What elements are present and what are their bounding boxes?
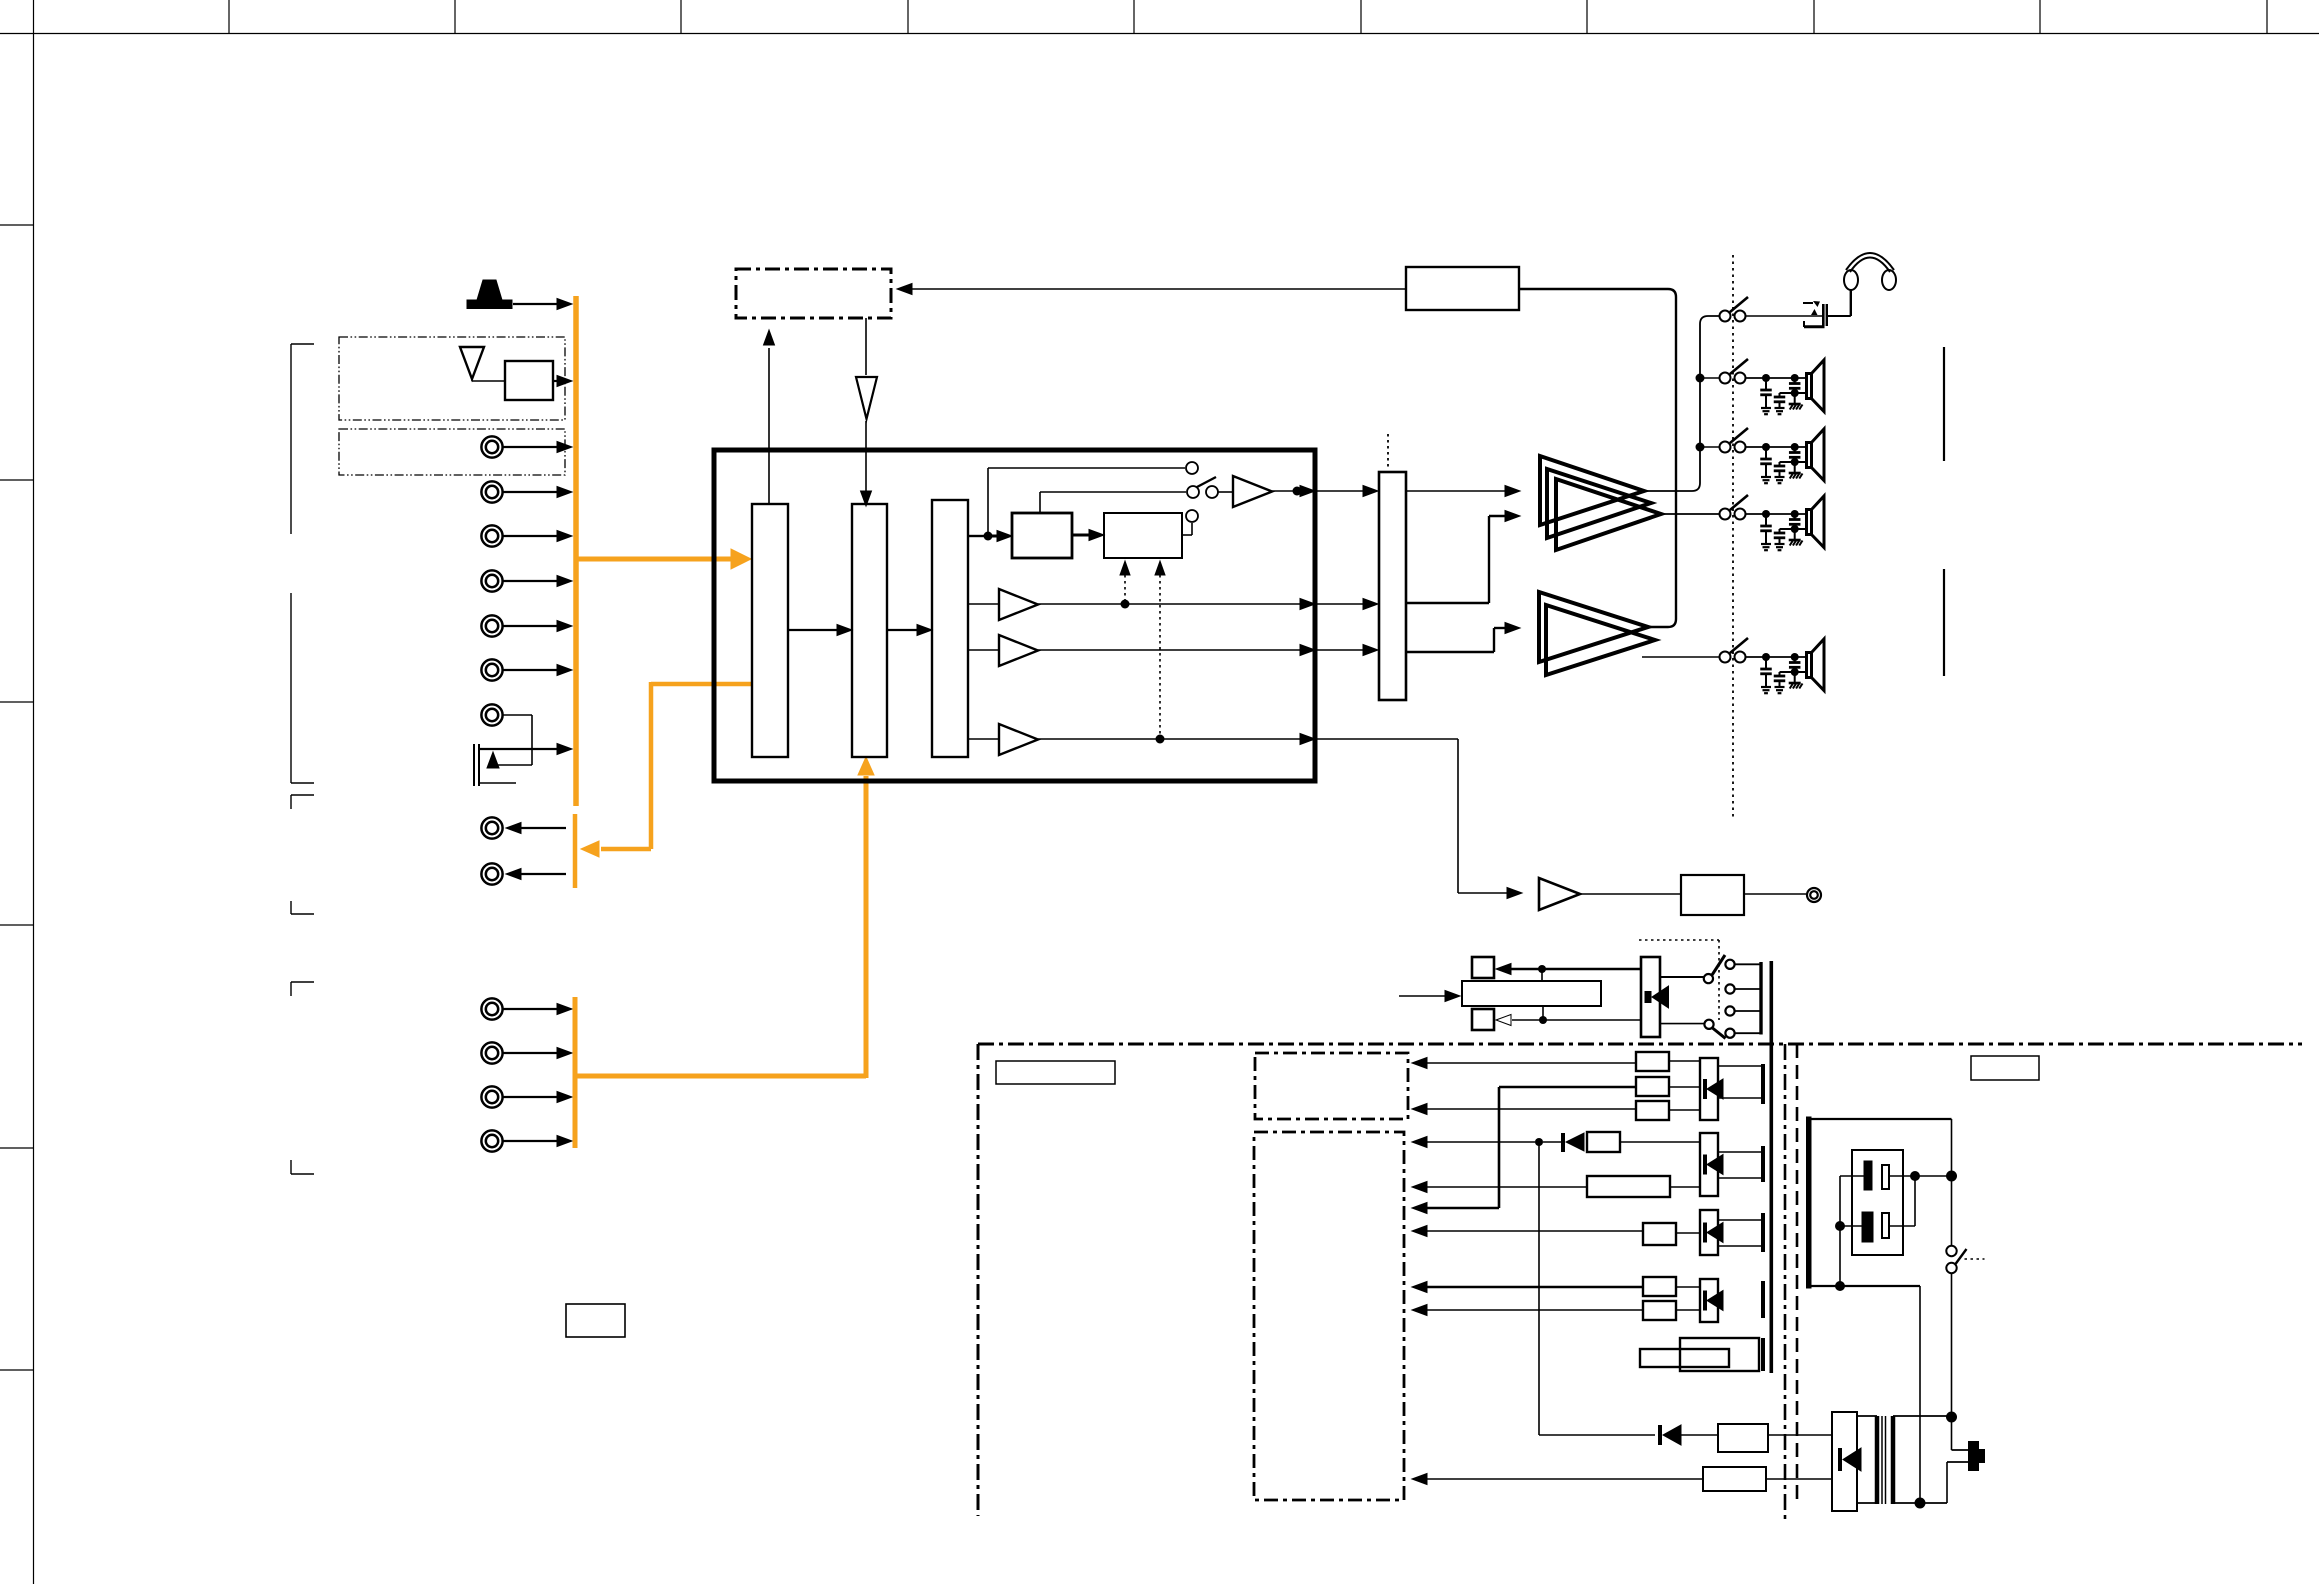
fuse block F2 <box>1703 1467 1766 1491</box>
transformer secondary <box>1857 1415 1877 1417</box>
REG4 output bracket <box>1761 1281 1765 1318</box>
wire relay to voltage selector <box>1660 976 1704 978</box>
speaker B left chassis ground <box>1789 539 1801 542</box>
rail block A2 <box>1636 1077 1669 1096</box>
wire to AC plug lower prong <box>1946 1462 1948 1503</box>
dash-dot separator 1 <box>1784 1044 1787 1520</box>
wire tone block to lower contact <box>1182 534 1192 536</box>
speaker surround <box>1807 653 1812 678</box>
wire switch to speaker A left <box>1745 377 1807 379</box>
speaker A right ground 1 <box>1761 476 1771 478</box>
headphone jack <box>1803 302 1813 304</box>
speaker surround capacitor C2 <box>1774 675 1786 678</box>
wire input jack J5 to bus <box>503 625 558 627</box>
input jack J4 <box>481 570 502 591</box>
junction node DAC output <box>968 535 984 537</box>
wire AC line row <box>1412 1474 1427 1485</box>
subwoofer buffer amp <box>1539 878 1580 910</box>
wire jack to headphones <box>1828 315 1851 317</box>
wire to rectifier diode <box>1539 1434 1655 1436</box>
voltage tap contacts <box>1725 960 1734 969</box>
speaker A right chassis ground <box>1789 472 1801 475</box>
wire DSP out 1 to muting <box>1315 490 1364 492</box>
regulator REG1 <box>1700 1058 1718 1120</box>
wire relay to indicator 1 <box>1510 968 1641 971</box>
volume attenuator triangle <box>856 377 877 419</box>
wire DSP to DAC <box>887 629 918 631</box>
input jack J7 (phono) <box>481 704 502 725</box>
multi-ch input jack J13 <box>481 1130 502 1151</box>
wire jack J12 to bus <box>503 1096 558 1098</box>
power section dash-dot left edge <box>977 1044 980 1516</box>
border frame top ticks <box>228 0 230 34</box>
wire jack J7 down <box>503 714 532 716</box>
wire input jack J3 to bus <box>503 535 558 537</box>
speaker A right <box>1807 443 1812 468</box>
wire bass block top to switch contact <box>1039 492 1041 513</box>
buffer amp U1c <box>968 649 999 651</box>
speaker A left ground 2 <box>1775 407 1785 409</box>
tone control block <box>1104 513 1182 558</box>
wire DSP out 2 to muting <box>1315 603 1364 605</box>
orange input bus <box>573 296 579 806</box>
speaker group bracket right 1 <box>1943 347 1945 461</box>
wire row A3 <box>1412 1104 1427 1115</box>
fuse block F1 <box>1681 1434 1718 1436</box>
rail block B3 <box>1643 1223 1676 1245</box>
dotted stub above muting block <box>1387 434 1389 470</box>
speaker surround ground 1 <box>1761 686 1771 688</box>
REG1 output bracket <box>1761 1064 1765 1104</box>
long resistor block <box>1587 1176 1670 1197</box>
headphone switch <box>1720 311 1731 322</box>
wire input jack J1 to bus <box>503 446 558 448</box>
input jack J5 <box>481 615 502 636</box>
speaker surround ground 2 <box>1775 686 1785 688</box>
input jack J3 <box>481 525 502 546</box>
wire relay to indicator 2 <box>1512 1019 1641 1021</box>
wire amp front R output to speaker row <box>1661 513 1719 515</box>
rail block D2 <box>1640 1349 1729 1367</box>
system control CPU dash-dot box <box>736 269 891 318</box>
dash-dot box aux input section <box>339 429 565 475</box>
speaker A left switch <box>1720 373 1731 384</box>
multi-ch input jack J10 <box>481 998 502 1019</box>
sheet label box <box>566 1304 625 1337</box>
wire buffer to lowpass block <box>1580 893 1681 895</box>
wire ground terminal to bus <box>479 748 558 750</box>
speaker surround capacitor C3 <box>1791 653 1799 661</box>
speaker A left ground 1 <box>1761 407 1771 409</box>
power section label box right <box>1971 1056 2039 1080</box>
speaker group bracket right 2 <box>1943 569 1945 676</box>
speaker A right capacitor C3 <box>1791 443 1799 451</box>
junction node secondary bottom <box>1915 1498 1926 1509</box>
power amp front (triple) <box>1540 456 1644 525</box>
speaker A left <box>1807 374 1812 399</box>
multi-ch input jack J12 <box>481 1086 502 1107</box>
group bracket mark 2 <box>290 593 292 783</box>
wire switch to speaker B left <box>1745 513 1807 515</box>
power relay RY1 <box>1641 957 1660 1037</box>
border frame left ticks <box>0 224 34 226</box>
bypass contact upper <box>1186 462 1198 474</box>
wire node to bypass contact <box>987 468 989 536</box>
sub CPU dash-dot box <box>1254 1132 1404 1500</box>
wire muting to power amp surround <box>1406 651 1494 653</box>
REG2 output bracket <box>1761 1146 1765 1182</box>
wire DSP sub out down <box>1315 738 1458 740</box>
wire selector to DSP <box>788 629 838 631</box>
rail block D1 <box>1680 1338 1759 1371</box>
regulator REG2 <box>1700 1133 1718 1196</box>
wire input jack J4 to bus <box>503 580 558 582</box>
power switch SW1 <box>1946 1246 1956 1256</box>
wire to bass block <box>988 535 1000 538</box>
speaker B left ground 1 <box>1761 543 1771 545</box>
power amp surround (double) <box>1539 592 1648 662</box>
group bracket mark 3 <box>291 794 314 796</box>
speaker B left capacitor C1 <box>1762 510 1770 518</box>
dotted control line 1 <box>1120 561 1130 575</box>
DSP main IC box <box>714 450 1315 781</box>
speaker A right capacitor C1 <box>1762 443 1770 451</box>
indicator block 1 <box>1472 957 1494 978</box>
outlet wiring <box>1889 1175 1952 1177</box>
power section dash-dot boundary <box>978 1043 2302 1046</box>
speaker A right ground 2 <box>1775 476 1785 478</box>
input jack J1 <box>481 436 502 457</box>
wire amp front L output trunk <box>1644 316 1719 491</box>
DAC block <box>932 500 968 757</box>
group bracket mark 5 <box>291 981 314 983</box>
wire outlet top <box>1811 1118 1952 1120</box>
relay driver block <box>1462 981 1601 1006</box>
dash-dot separator 2 <box>1796 1044 1799 1505</box>
border frame top rule <box>0 33 2319 35</box>
wire standby 5V row <box>1412 1058 1427 1069</box>
wire amp surround to speaker row <box>1642 656 1719 658</box>
wire to AC plug upper prong <box>1951 1417 1953 1450</box>
speaker A left capacitor C2 <box>1774 396 1786 399</box>
dash-dot box tuner section <box>339 337 565 420</box>
subwoofer pre out jack <box>1807 888 1821 902</box>
AC outlet box <box>1852 1150 1903 1255</box>
orange rec out bus <box>573 814 578 888</box>
rectifier diode D10 <box>1658 1425 1662 1445</box>
wire bus to rec out jack J8 <box>520 827 566 829</box>
wire diode row to REG2 <box>1412 1137 1427 1148</box>
input selector block <box>752 504 788 757</box>
regulator REG4 <box>1700 1279 1718 1322</box>
power section label box left <box>996 1061 1115 1084</box>
speaker B left capacitor C3 <box>1791 510 1799 518</box>
orange trunk multi-ch to DSP <box>575 1074 866 1079</box>
wire DSP out 3 to muting <box>1315 649 1364 651</box>
wire outlet bottom <box>1811 1285 1920 1287</box>
voltage selector switch <box>1704 974 1713 983</box>
rec out jack J8 <box>481 817 502 838</box>
orange trunk to DSP input selector <box>576 557 733 562</box>
border frame left rule <box>33 0 35 1584</box>
wire bus to rec out jack J9 <box>520 873 566 875</box>
wire trunk to speaker switch <box>1700 446 1719 448</box>
wire selector to system CPU <box>768 348 770 504</box>
wire protection feedback into CPU <box>912 288 1406 290</box>
wire lowpass to subwoofer jack <box>1744 893 1806 895</box>
speaker A left capacitor C1 <box>1762 374 1770 382</box>
speaker surround chassis ground <box>1789 682 1801 685</box>
subwoofer lowpass block <box>1681 875 1744 915</box>
wire muting to power amp front <box>1406 490 1506 492</box>
wire jack J11 to bus <box>503 1052 558 1054</box>
standby CPU dash-dot box <box>1255 1053 1408 1119</box>
buffer amp U1d subwoofer <box>968 738 999 740</box>
output buffer amp U1a <box>1233 476 1272 507</box>
input jack J2 <box>481 481 502 502</box>
power transformer T1 primary <box>1832 1412 1857 1511</box>
tuner block <box>505 361 553 400</box>
speaker B left <box>1807 510 1812 535</box>
input jack J6 <box>481 659 502 680</box>
speaker surround capacitor C1 <box>1762 653 1770 661</box>
wire power switch down <box>1951 1273 1953 1413</box>
wire switch to speaker surround <box>1745 656 1807 658</box>
wire trunk to speaker switch <box>1700 377 1719 379</box>
wire jack J10 to bus <box>503 1008 558 1010</box>
rail block A1 <box>1636 1052 1669 1071</box>
AC outlet contact 2 <box>1862 1212 1873 1242</box>
power rail bus <box>1770 961 1774 1373</box>
wire long block row <box>1412 1182 1427 1193</box>
wire input jack J6 to bus <box>503 669 558 671</box>
wire outlet feed riser <box>1951 1119 1953 1246</box>
wire switched power row (thick L) <box>1412 1203 1427 1214</box>
REG3 output bracket <box>1761 1213 1765 1252</box>
speaker B left switch <box>1720 509 1731 520</box>
junction node on amp trunk <box>1696 443 1705 452</box>
speaker A left chassis ground <box>1789 403 1801 406</box>
orange wire selector to rec bus <box>651 682 752 687</box>
rail block C1 <box>1643 1277 1676 1296</box>
AC outlet contact 1 <box>1864 1161 1872 1190</box>
wire switch to buffer <box>1218 491 1233 493</box>
antenna symbol <box>477 280 502 300</box>
group bracket mark 6 <box>290 1160 292 1174</box>
wire muting to power amp front 2 <box>1406 602 1489 604</box>
speaker A right switch <box>1720 442 1731 453</box>
diode D2 <box>1561 1133 1565 1152</box>
speaker B left capacitor C2 <box>1774 532 1786 535</box>
headphones icon <box>1844 270 1858 290</box>
wire system CPU to volume <box>865 318 867 375</box>
wire amp surround output feedback trunk <box>1519 289 1676 627</box>
buffer amp U1b <box>968 603 999 605</box>
orange multi-ch input bus <box>573 997 578 1148</box>
wire input jack J2 to bus <box>503 491 558 493</box>
group bracket mark 1 <box>291 343 314 345</box>
speaker A left capacitor C3 <box>1791 374 1799 382</box>
rail block A3 <box>1636 1101 1669 1120</box>
junction node on amp trunk <box>1696 374 1705 383</box>
junction node secondary top <box>1946 1412 1957 1423</box>
AC power plug <box>1968 1441 1985 1471</box>
wire buffer to box edge <box>1272 490 1301 492</box>
ground screw terminal <box>473 744 475 786</box>
wire rows to REG4 <box>1412 1282 1427 1293</box>
indicator block 2 <box>1472 1009 1494 1030</box>
wire secondary bottom riser <box>1919 1286 1921 1503</box>
voltage tap bracket <box>1759 962 1762 1035</box>
speaker A right capacitor C2 <box>1774 465 1786 468</box>
speaker surround switch <box>1720 652 1731 663</box>
resistor block R2 <box>1587 1132 1620 1152</box>
wire switch to headphone jack <box>1745 315 1822 317</box>
wire antenna to bus <box>513 303 558 305</box>
wire sense vertical <box>1538 1142 1540 1435</box>
speaker select dotted line <box>1732 255 1734 820</box>
wire switch to speaker A right <box>1745 446 1807 448</box>
dotted control line 2 <box>1155 561 1165 575</box>
DSP block <box>852 504 887 757</box>
wire jack J13 to bus <box>503 1140 558 1142</box>
wire input to relay driver <box>1399 995 1446 997</box>
wire tuner block to bus <box>553 380 558 382</box>
tuner front-end triangle <box>460 347 484 379</box>
regulator REG3 <box>1700 1210 1718 1255</box>
AC outlet feed bar <box>1807 1117 1812 1288</box>
bass management block <box>1012 513 1072 558</box>
transformer core <box>1875 1416 1880 1504</box>
speaker B left ground 2 <box>1775 543 1785 545</box>
multi-ch input jack J11 <box>481 1042 502 1063</box>
rail block C2 <box>1643 1301 1676 1320</box>
wire triangle to tuner block <box>471 379 473 381</box>
wire bass to tone block <box>1072 534 1092 537</box>
standby relay dotted lines <box>1639 939 1719 941</box>
protection detector block <box>1406 267 1519 310</box>
group bracket mark 4 <box>290 901 292 914</box>
rec out jack J9 <box>481 863 502 884</box>
tone defeat switch <box>1187 486 1199 498</box>
wire row to REG3 <box>1412 1226 1427 1237</box>
muting selector block <box>1379 472 1406 700</box>
group D bracket <box>1761 1338 1765 1371</box>
